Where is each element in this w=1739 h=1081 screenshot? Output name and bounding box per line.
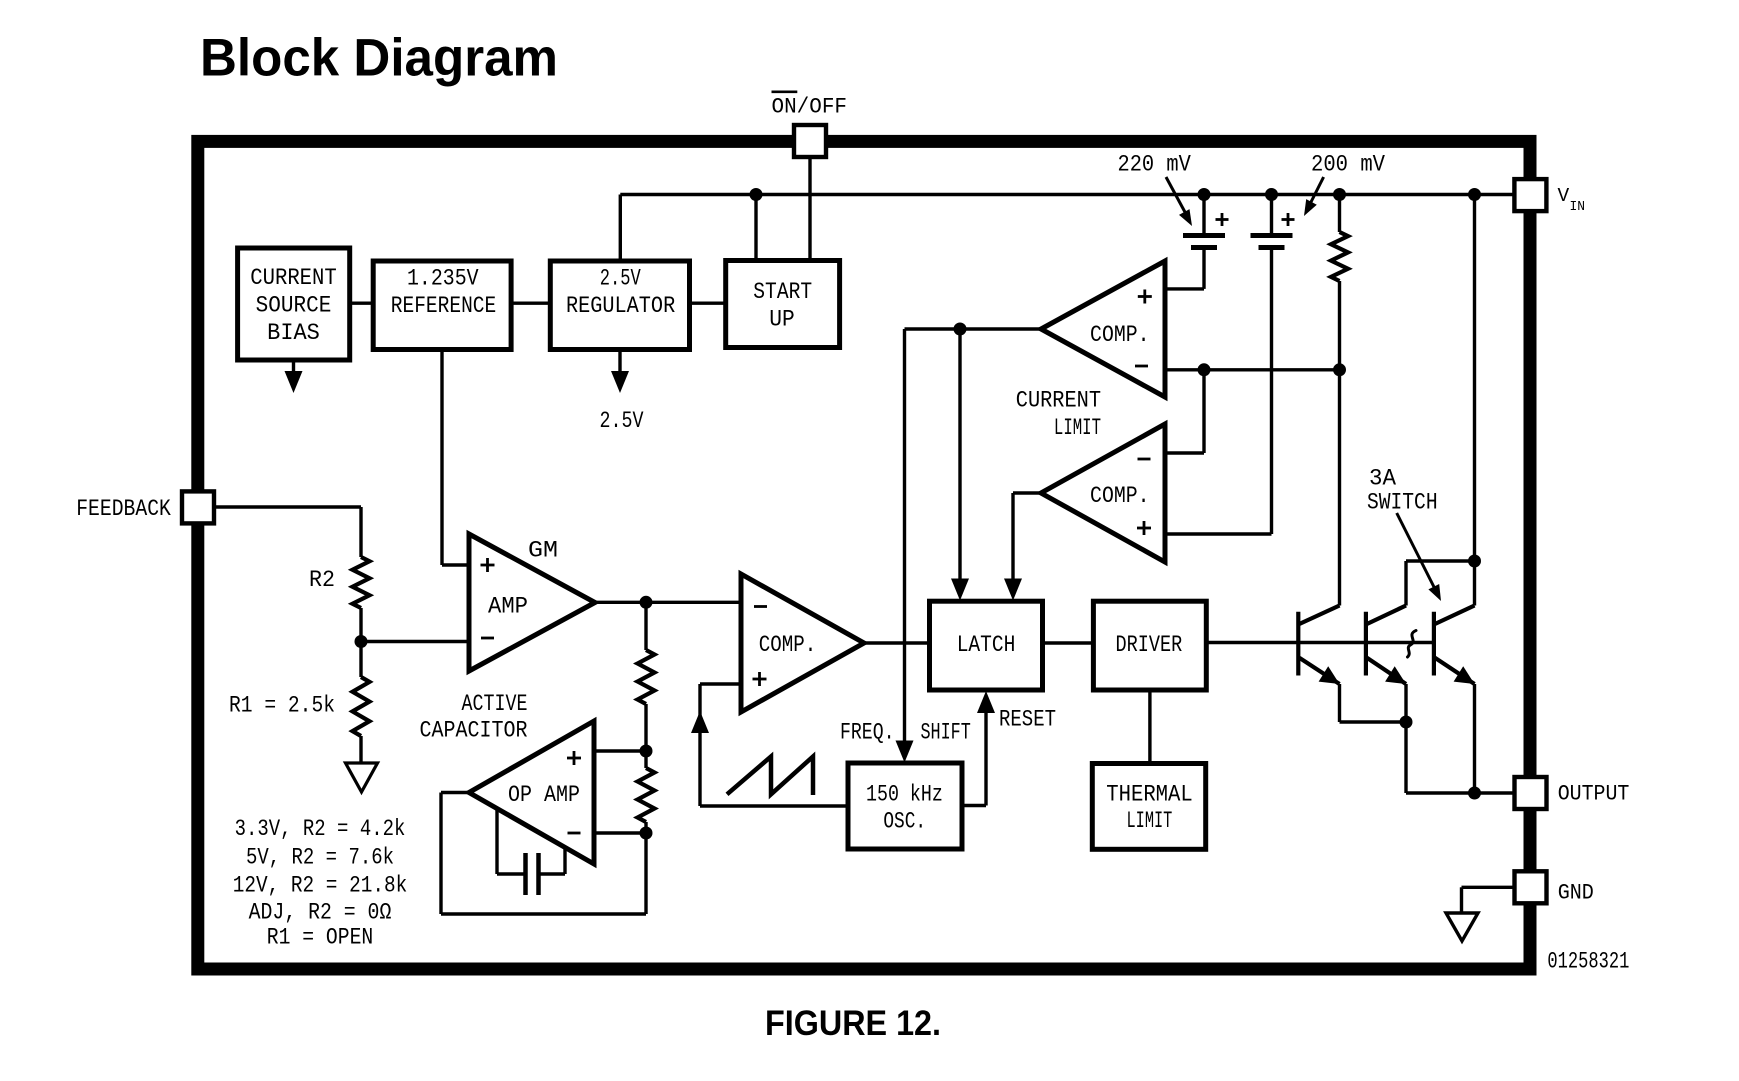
svg-text:CURRENT: CURRENT xyxy=(250,265,337,292)
svg-text:1.235V: 1.235V xyxy=(407,266,479,293)
svg-text:REGULATOR: REGULATOR xyxy=(566,293,675,320)
svg-text:SHIFT: SHIFT xyxy=(921,720,971,747)
svg-text:DRIVER: DRIVER xyxy=(1116,632,1183,659)
svg-text:220 mV: 220 mV xyxy=(1118,152,1191,179)
svg-text:COMP.: COMP. xyxy=(759,632,817,659)
svg-text:THERMAL: THERMAL xyxy=(1106,781,1193,808)
svg-text:LIMIT: LIMIT xyxy=(1054,415,1101,442)
svg-text:R1 = 2.5k: R1 = 2.5k xyxy=(229,693,335,720)
svg-text:GND: GND xyxy=(1558,880,1594,905)
svg-text:UP: UP xyxy=(769,307,795,334)
svg-text:COMP.: COMP. xyxy=(1090,322,1150,349)
svg-text:LATCH: LATCH xyxy=(957,632,1016,659)
svg-text:3A: 3A xyxy=(1369,466,1397,493)
svg-text:OUTPUT: OUTPUT xyxy=(1558,781,1630,806)
svg-text:R1 = OPEN: R1 = OPEN xyxy=(267,925,374,952)
svg-text:IN: IN xyxy=(1570,199,1586,215)
svg-text:SOURCE: SOURCE xyxy=(256,293,332,320)
svg-text:REFERENCE: REFERENCE xyxy=(391,293,496,320)
svg-text:5V, R2 = 7.6k: 5V, R2 = 7.6k xyxy=(246,844,394,871)
svg-text:AMP: AMP xyxy=(488,594,528,621)
svg-text:3.3V, R2 = 4.2k: 3.3V, R2 = 4.2k xyxy=(235,816,406,843)
svg-text:FEEDBACK: FEEDBACK xyxy=(76,496,171,522)
svg-text:ADJ, R2 = 0Ω: ADJ, R2 = 0Ω xyxy=(249,900,392,927)
svg-text:200 mV: 200 mV xyxy=(1311,152,1385,179)
svg-text:01258321: 01258321 xyxy=(1547,948,1629,974)
svg-text:RESET: RESET xyxy=(999,707,1056,734)
svg-text:R2: R2 xyxy=(309,567,335,594)
svg-text:LIMIT: LIMIT xyxy=(1127,808,1173,835)
svg-text:150 kHz: 150 kHz xyxy=(866,781,943,808)
svg-text:2.5V: 2.5V xyxy=(600,408,644,435)
svg-text:ON/OFF: ON/OFF xyxy=(772,95,848,120)
svg-text:GM: GM xyxy=(528,538,558,565)
svg-text:OP AMP: OP AMP xyxy=(508,782,580,809)
svg-text:V: V xyxy=(1558,185,1570,207)
svg-text:BIAS: BIAS xyxy=(267,320,320,347)
svg-text:12V, R2 = 21.8k: 12V, R2 = 21.8k xyxy=(233,873,408,900)
svg-text:CURRENT: CURRENT xyxy=(1016,387,1101,414)
svg-text:ACTIVE: ACTIVE xyxy=(462,691,528,718)
svg-text:OSC.: OSC. xyxy=(883,808,926,835)
svg-text:2.5V: 2.5V xyxy=(600,266,641,293)
svg-text:SWITCH: SWITCH xyxy=(1367,490,1438,517)
svg-text:CAPACITOR: CAPACITOR xyxy=(420,717,528,744)
svg-text:Block Diagram: Block Diagram xyxy=(200,29,558,88)
svg-text:COMP.: COMP. xyxy=(1090,483,1150,510)
svg-text:FIGURE 12.: FIGURE 12. xyxy=(765,1004,941,1043)
svg-text:FREQ.: FREQ. xyxy=(840,720,895,747)
svg-text:START: START xyxy=(753,279,812,306)
